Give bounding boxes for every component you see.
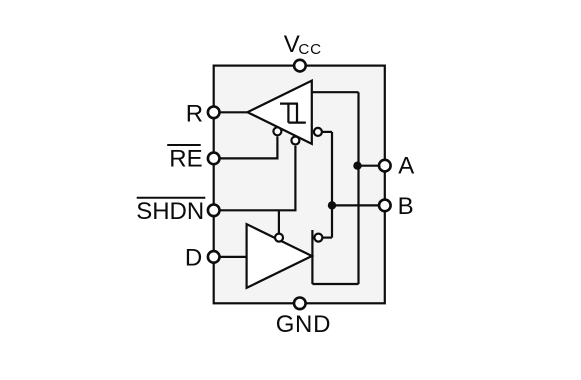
- pin SHDN terminal: [208, 205, 220, 217]
- bubble driver inverting output: [314, 234, 322, 242]
- pin GND terminal: [294, 298, 306, 310]
- svg-text:CC: CC: [298, 41, 322, 58]
- wire SHDN branch to driver enable: [278, 210, 280, 233]
- svg-text:GND: GND: [276, 311, 331, 338]
- pin B terminal: [379, 200, 391, 212]
- node A junction dot: [353, 162, 361, 170]
- bubble receiver inverting input: [314, 128, 322, 136]
- bubble receiver enable SHDN: [291, 137, 299, 145]
- pin R terminal: [208, 107, 220, 119]
- svg-text:A: A: [398, 153, 414, 180]
- svg-text:B: B: [398, 193, 414, 220]
- bubble receiver enable RE: [273, 127, 281, 135]
- wire inverting net vertical (x=332): [331, 132, 333, 238]
- receiver hysteresis symbol: [280, 104, 306, 123]
- wire RE pin to receiver enable: [214, 137, 278, 159]
- pin D terminal: [208, 251, 220, 263]
- wire driver inverting output from bubble: [322, 237, 332, 239]
- pin Vcc terminal: [294, 60, 306, 72]
- wire D pin to driver input: [214, 256, 247, 258]
- wire R pin to receiver output tip: [214, 111, 248, 113]
- pin A terminal: [379, 160, 391, 172]
- svg-text:V: V: [284, 31, 300, 58]
- receiver U1 triangle: [248, 81, 312, 144]
- wire A horizontal to pin A: [358, 165, 385, 167]
- svg-text:RE: RE: [169, 146, 202, 173]
- wire SHDN pin run: [214, 146, 296, 211]
- label RE with overline: [167, 145, 202, 173]
- label SHDN with overline: [136, 198, 205, 225]
- wire receiver noninverting input to A net: [312, 91, 359, 93]
- wire A-B net vertical (x=358): [357, 92, 359, 284]
- node B junction dot: [328, 201, 336, 209]
- bubble driver enable: [275, 234, 283, 242]
- label Vcc: [284, 31, 322, 58]
- driver U2 triangle: [247, 224, 312, 288]
- wire driver output stub vertical: [311, 230, 313, 284]
- svg-text:SHDN: SHDN: [136, 198, 204, 225]
- wire driver noninverting output bottom run: [312, 283, 358, 285]
- wire B horizontal to pin B: [332, 204, 385, 206]
- IC outline box: [214, 66, 385, 304]
- svg-text:D: D: [185, 245, 202, 272]
- wire receiver inverting input from bubble: [322, 131, 333, 133]
- pin RE terminal: [208, 153, 220, 165]
- svg-text:R: R: [186, 101, 203, 128]
